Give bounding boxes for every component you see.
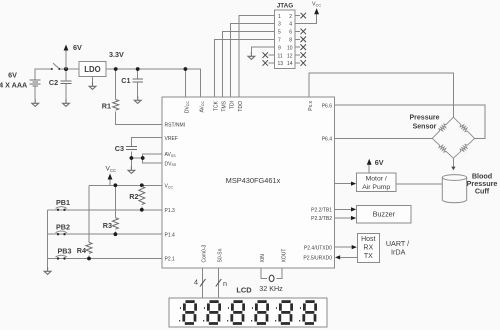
ground below C3 xyxy=(128,166,135,173)
svg-text:RX: RX xyxy=(363,245,373,252)
capacitor C1 xyxy=(132,79,143,82)
wire JTAG pin8 stub xyxy=(295,38,300,40)
svg-text:C1: C1 xyxy=(121,76,130,85)
node R2 bottom xyxy=(140,208,144,212)
svg-text:AVSS: AVSS xyxy=(165,152,177,158)
svg-text:n: n xyxy=(223,279,227,288)
svg-text:P2.4/UTXD0: P2.4/UTXD0 xyxy=(304,245,332,251)
wire C1 to ground xyxy=(137,82,139,96)
svg-text:R3: R3 xyxy=(103,221,112,230)
resistor R4 xyxy=(86,242,92,253)
wire JTAG pin9 to ground xyxy=(251,47,274,52)
svg-text:P6.4: P6.4 xyxy=(322,137,333,143)
svg-text:13: 13 xyxy=(278,61,284,67)
lcd digit 3 xyxy=(227,302,244,324)
wire S0-Sn to LCD xyxy=(217,268,219,298)
wire R4 column xyxy=(88,185,90,242)
switch S1 xyxy=(51,63,61,70)
pushbutton PB3 xyxy=(56,247,72,260)
wire switch to LDO xyxy=(60,68,80,70)
svg-text:RST/NMI: RST/NMI xyxy=(165,122,186,128)
wire DVcc drop xyxy=(184,69,186,97)
wire C3 bottom node xyxy=(130,152,132,166)
svg-text:XOUT: XOUT xyxy=(281,249,287,263)
lcd digit 6 xyxy=(299,302,316,324)
wire JTAG pin13 stub xyxy=(269,62,275,64)
wire battery to ground xyxy=(34,86,36,99)
svg-text:R4: R4 xyxy=(77,246,86,255)
wire MCU to motor arrow xyxy=(335,183,352,185)
node R4 bottom xyxy=(87,257,91,261)
svg-text:Air Pump: Air Pump xyxy=(362,184,390,191)
svg-text:12: 12 xyxy=(287,53,293,59)
svg-text:3: 3 xyxy=(278,22,281,28)
crystal 32KHz xyxy=(269,275,274,281)
power arrow 6V top xyxy=(64,43,82,69)
wire JTAG pin7 to TCK column xyxy=(215,39,275,97)
resistor R2 xyxy=(139,186,145,204)
no-connect X pin 10 xyxy=(301,44,307,50)
wire bridge bottom to cuff arrow xyxy=(452,158,454,167)
svg-text:TDI: TDI xyxy=(230,101,236,109)
wire pushbutton common column xyxy=(47,210,49,267)
svg-text:Com0-3: Com0-3 xyxy=(202,244,208,262)
node R3 bottom xyxy=(114,232,118,236)
wire R1 bottom to RST/NMI xyxy=(116,112,162,125)
wire JTAG pin12 stub xyxy=(295,54,300,56)
capacitor C3 xyxy=(126,146,137,149)
wire Com0-3 to LCD xyxy=(202,268,204,298)
battery BT1 6V 4xAAA xyxy=(30,80,41,86)
wire XIN to crystal xyxy=(261,268,267,278)
no-connect X pin 6 xyxy=(301,29,307,35)
wire LDO to ground xyxy=(92,77,94,83)
wire P6.4 to bridge left xyxy=(335,137,433,139)
svg-text:DVCC: DVCC xyxy=(184,101,190,114)
resistor R3 xyxy=(112,218,118,230)
wire JTAG pin2 stub xyxy=(295,15,300,17)
svg-text:3.3V: 3.3V xyxy=(109,50,124,59)
bus slash S0-Sn xyxy=(216,279,222,287)
node DVcc xyxy=(184,67,188,71)
no-connect X pin 13 xyxy=(263,60,269,66)
no-connect X pin 11 xyxy=(263,52,269,58)
svg-text:Buzzer: Buzzer xyxy=(373,210,396,219)
svg-text:S0-Sn: S0-Sn xyxy=(217,248,223,262)
wire P1.3 row xyxy=(48,209,162,211)
wire JTAG pin14 stub xyxy=(295,62,300,64)
power arrow Vcc left xyxy=(106,166,117,180)
buzzer box xyxy=(357,205,412,222)
lcd digit 5 xyxy=(275,302,292,324)
svg-text:PB3: PB3 xyxy=(58,247,72,256)
svg-text:AVCC: AVCC xyxy=(199,101,205,113)
wire Vcc pullup rail xyxy=(89,184,162,186)
wire JTAG pin11 stub xyxy=(269,54,275,56)
wire JTAG pin1 to TDO column xyxy=(239,16,275,97)
svg-text:14: 14 xyxy=(287,61,293,67)
arrowhead buzzer 1 xyxy=(351,207,356,211)
svg-text:7: 7 xyxy=(278,38,281,44)
wire XOUT to crystal xyxy=(277,268,283,278)
wire P1.4 row xyxy=(48,233,162,235)
ground below LDO xyxy=(89,82,96,89)
svg-text:Motor /: Motor / xyxy=(366,176,387,183)
pushbutton PB2 xyxy=(56,222,70,235)
no-connect X pin 2 xyxy=(301,13,307,19)
node switch C2 LDO junction xyxy=(64,67,68,71)
wire R1 top xyxy=(115,69,117,100)
wire MCU to buzzer arrow 1 xyxy=(335,208,352,210)
svg-text:4: 4 xyxy=(194,278,198,287)
bridge arm top-left xyxy=(432,117,453,138)
wire C2 to ground xyxy=(65,84,67,99)
wire P6.6 to bridge right xyxy=(335,105,486,138)
svg-text:P1.4: P1.4 xyxy=(165,232,176,238)
wire R2 body span xyxy=(141,185,143,186)
ground JTAG pin9 xyxy=(248,52,255,59)
svg-text:JTAG: JTAG xyxy=(277,3,294,10)
LDO U2 xyxy=(79,62,106,77)
node C1 top xyxy=(136,67,140,71)
svg-text:2: 2 xyxy=(289,14,292,20)
wire VREF to C3 xyxy=(131,138,162,147)
svg-text:5: 5 xyxy=(278,30,281,36)
svg-text:P2.2/TB1: P2.2/TB1 xyxy=(311,208,332,214)
wire JTAG pin4 to Vcc xyxy=(295,13,316,24)
node bracket xyxy=(141,156,145,160)
power arrow Vcc JTAG xyxy=(312,2,321,15)
svg-text:Cuff: Cuff xyxy=(475,187,490,196)
wire R3 bottom xyxy=(114,232,116,235)
bus slash Com0-3 xyxy=(200,279,206,287)
node R1 top xyxy=(114,67,118,71)
wire MCU to host RX arrow xyxy=(335,246,353,248)
arrowhead MCU to motor xyxy=(351,182,356,186)
arrow bridge to cuff xyxy=(451,167,455,171)
svg-text:Host: Host xyxy=(361,236,375,243)
svg-text:6V: 6V xyxy=(73,43,82,52)
wire JTAG pin3 to TDI column xyxy=(231,24,275,97)
wire R2 bottom xyxy=(141,206,143,209)
svg-text:4: 4 xyxy=(289,22,292,28)
svg-text:VREF: VREF xyxy=(165,136,178,142)
capacitor C2 xyxy=(61,81,72,84)
svg-text:P2.5/URXD0: P2.5/URXD0 xyxy=(303,256,332,262)
svg-text:R1: R1 xyxy=(102,102,111,111)
bridge arm bottom-left xyxy=(432,138,453,158)
svg-text:1: 1 xyxy=(278,14,281,20)
svg-text:9: 9 xyxy=(278,45,281,51)
svg-text:TX: TX xyxy=(364,253,373,260)
arrowhead TX to MCU xyxy=(335,255,340,259)
wire AVss DVss bracket xyxy=(143,154,162,163)
wire 6V arrow stem motor xyxy=(368,164,370,174)
wire JTAG pin5 to TMS column xyxy=(223,31,275,96)
no-connect X pin 14 xyxy=(301,60,307,66)
wire C3 node to AVss DVss bracket xyxy=(131,157,142,159)
pushbutton PB1 xyxy=(56,198,70,211)
node C3 bottom xyxy=(130,156,134,160)
no-connect X pin 12 xyxy=(301,52,307,58)
svg-text:R2: R2 xyxy=(129,192,138,201)
svg-text:C2: C2 xyxy=(49,78,58,87)
node R2 top xyxy=(140,183,144,187)
svg-text:LDO: LDO xyxy=(84,65,100,74)
svg-text:TDO: TDO xyxy=(238,101,244,112)
svg-text:DVSS: DVSS xyxy=(165,161,177,167)
svg-text:P1.3: P1.3 xyxy=(165,208,176,214)
svg-text:P2.1: P2.1 xyxy=(165,257,176,263)
arrowhead host RX xyxy=(352,245,357,249)
svg-text:TCK: TCK xyxy=(214,100,220,111)
svg-text:11: 11 xyxy=(278,53,283,59)
power arrow 6V motor xyxy=(367,158,384,167)
connector J1 JTAG xyxy=(275,3,296,69)
ground below C2 xyxy=(63,99,70,106)
svg-text:32 KHz: 32 KHz xyxy=(259,284,283,293)
ground below battery xyxy=(32,99,39,106)
wire 3.3V rail LDO to AVcc drop xyxy=(106,69,201,97)
svg-text:Px.x: Px.x xyxy=(308,101,314,111)
wire battery top to switch xyxy=(35,69,51,80)
svg-text:10: 10 xyxy=(287,45,293,51)
op MCU U1 MSP430FG461x xyxy=(162,97,335,268)
wire Px.x to bridge top xyxy=(309,73,454,117)
wire R3 top xyxy=(114,185,116,217)
lcd digit 4 xyxy=(251,302,268,324)
svg-text:XIN: XIN xyxy=(260,254,266,263)
svg-text:IrDA: IrDA xyxy=(391,248,406,257)
svg-text:Sensor: Sensor xyxy=(413,124,437,131)
LCD display box xyxy=(169,298,327,327)
no-connect X pin 8 xyxy=(301,37,307,43)
node R3 top xyxy=(114,183,118,187)
wire host TX to MCU arrow xyxy=(341,256,358,258)
svg-text:VCC: VCC xyxy=(165,184,174,190)
host box xyxy=(357,234,379,263)
ground below C1 xyxy=(134,96,141,103)
wire JTAG pin10 stub xyxy=(295,46,300,48)
lcd digit 2 xyxy=(203,302,220,324)
blood pressure cuff cylinder xyxy=(442,175,466,203)
svg-text:6V: 6V xyxy=(375,158,384,167)
wire P2.1 row xyxy=(48,258,162,260)
pressure sensor bridge xyxy=(432,117,474,158)
wire R4 bottom xyxy=(88,256,90,259)
wire motor pump to cuff xyxy=(396,183,442,185)
motor air pump box xyxy=(357,173,396,191)
wire C2 node xyxy=(65,69,67,80)
svg-text:C3: C3 xyxy=(115,144,124,153)
wire C1 top xyxy=(137,69,139,79)
svg-text:LCD: LCD xyxy=(236,285,252,294)
svg-text:P2.3/TB2: P2.3/TB2 xyxy=(311,216,332,222)
svg-text:6: 6 xyxy=(289,30,292,36)
wire Vcc arrow stem xyxy=(109,178,111,185)
svg-text:P6.6: P6.6 xyxy=(322,103,333,109)
svg-text:CC: CC xyxy=(110,168,116,173)
wire JTAG pin6 stub xyxy=(295,30,300,32)
svg-text:PB1: PB1 xyxy=(56,198,70,207)
wire MCU to buzzer arrow 2 xyxy=(335,217,352,219)
ground pushbutton common xyxy=(44,267,51,274)
svg-text:8: 8 xyxy=(289,38,292,44)
svg-text:CC: CC xyxy=(316,4,322,8)
svg-text:Pressure: Pressure xyxy=(410,115,440,122)
svg-text:4 X AAA: 4 X AAA xyxy=(0,81,27,90)
arrowhead buzzer 2 xyxy=(351,216,356,220)
svg-text:6V: 6V xyxy=(8,71,17,80)
bridge arm bottom-right xyxy=(453,138,474,158)
svg-text:MSP430FG461x: MSP430FG461x xyxy=(226,176,281,185)
svg-text:TMS: TMS xyxy=(222,100,228,111)
bridge arm top-right xyxy=(453,117,474,138)
svg-text:PB2: PB2 xyxy=(56,222,70,231)
resistor R1 xyxy=(113,100,119,111)
lcd digit 1 xyxy=(179,302,196,324)
